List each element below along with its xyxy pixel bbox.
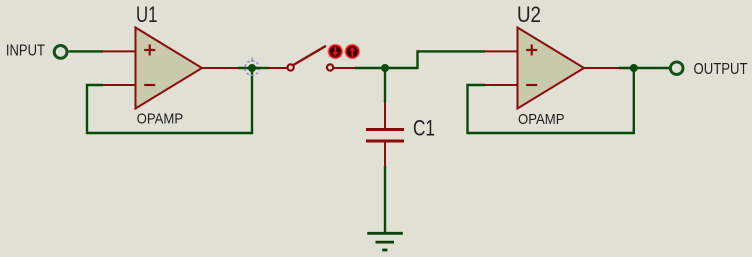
- U1 plus symbol: [144, 45, 155, 56]
- terminal OUTPUT: [670, 62, 683, 75]
- pin U1 out: [202, 67, 239, 69]
- svg-text:OPAMP: OPAMP: [518, 112, 565, 128]
- wire U2 feedback left vertical: [466, 84, 468, 134]
- pin U2 +in: [485, 50, 518, 52]
- wire C1 to ground: [384, 166, 386, 233]
- svg-text:OPAMP: OPAMP: [137, 112, 184, 128]
- terminal INPUT: [54, 46, 67, 59]
- wire junction A down to feedback: [251, 68, 253, 134]
- pin C1 top: [384, 102, 386, 129]
- switch lever: [293, 46, 326, 65]
- svg-text:OUTPUT: OUTPUT: [694, 61, 748, 78]
- junction B dot: [381, 64, 389, 72]
- wire U1 out to junction A: [238, 67, 258, 69]
- ground symbol: [367, 233, 403, 250]
- switch SW pin left: [268, 67, 287, 69]
- switch pole right circle: [327, 64, 333, 70]
- svg-text:INPUT: INPUT: [6, 43, 45, 60]
- capacitor C1 plates: [366, 128, 404, 131]
- U1 minus symbol: [144, 84, 155, 86]
- wire INPUT to U1 +in: [69, 50, 103, 52]
- U2 plus symbol: [526, 45, 537, 56]
- wire U2 feedback to -in: [467, 84, 486, 86]
- wire U2 out to junction C: [619, 67, 637, 69]
- switch pole left circle: [288, 64, 294, 70]
- wire U2 feedback bottom: [467, 132, 635, 134]
- wire switch to junction B: [355, 67, 388, 69]
- svg-text:C1: C1: [413, 116, 435, 141]
- switch SW pin right: [334, 67, 357, 69]
- op-amp U1 body: [136, 28, 203, 109]
- wire junction C to OUTPUT: [637, 67, 670, 69]
- pin U2 -in: [485, 84, 518, 86]
- wire U1 feedback bottom: [86, 132, 253, 134]
- wire junction B down to C1: [384, 68, 386, 103]
- switch toggle button down: [328, 44, 344, 60]
- pin C1 bottom: [384, 143, 386, 168]
- selection marker around junction A: [245, 58, 259, 76]
- wire U1 feedback to -in: [86, 84, 103, 86]
- junction A dot: [248, 64, 256, 72]
- pin U2 out: [584, 67, 620, 69]
- wire to U2 +in: [417, 50, 486, 52]
- pin U1 -in: [103, 84, 136, 86]
- pin U1 +in: [103, 50, 136, 52]
- wire junction B to corner: [385, 67, 418, 69]
- op-amp U2 body: [518, 28, 585, 109]
- wire corner up: [416, 50, 418, 69]
- switch toggle button up: [345, 44, 361, 60]
- junction C dot: [630, 64, 638, 72]
- wire U1 feedback left vertical: [86, 84, 88, 134]
- wire junction A to switch: [256, 67, 269, 69]
- U2 minus symbol: [526, 84, 537, 86]
- svg-text:U2: U2: [517, 2, 541, 27]
- svg-text:U1: U1: [136, 2, 158, 27]
- wire junction C down: [633, 68, 635, 134]
